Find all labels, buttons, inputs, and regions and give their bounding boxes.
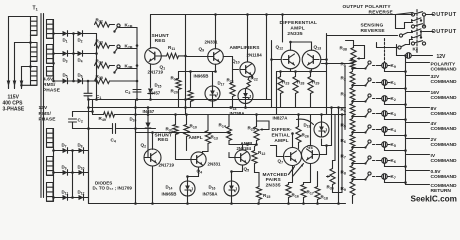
transistor Q7: [284, 148, 302, 166]
wire emitter row: [179, 71, 216, 73]
wire Q2 emitter: [152, 166, 154, 204]
junction sec row2: [52, 52, 55, 55]
wire R21 bot: [232, 97, 234, 108]
wire D16 bot: [231, 196, 233, 204]
wire ladder tap K~4~: [353, 132, 365, 134]
transistor Q4: [191, 152, 206, 167]
transformer secondary winding 3: [47, 67, 54, 76]
wire K8 right: [415, 55, 433, 57]
relay coil K~1~: [379, 80, 390, 86]
ladder seg R~5~: [352, 132, 354, 134]
label DIFFERENTIAL AMPL: [280, 20, 318, 37]
command line 0.5V: [406, 170, 430, 172]
label 16V cmd: [431, 90, 440, 96]
wire Q4 base: [176, 159, 191, 161]
label AMPL upper5: [241, 141, 255, 146]
label R11: [168, 45, 175, 51]
wire R~23~ top: [280, 72, 282, 77]
bus right 344: [344, 66, 346, 130]
label R~35~: [96, 74, 103, 80]
linkage K~4~: [373, 129, 379, 131]
power rail upper: [89, 99, 271, 101]
junction emitter row: [189, 70, 192, 73]
switch contact dots row5: [411, 35, 422, 39]
diode D~2~: [78, 31, 83, 37]
junction D24 top: [147, 106, 150, 109]
junction Q7 col: [291, 132, 294, 135]
junction R~23~: [279, 70, 282, 73]
junction switch bus3: [136, 80, 139, 83]
junction top rail Q9: [214, 13, 217, 16]
wire R~28~ top: [295, 72, 297, 77]
wire R18 top: [317, 172, 319, 187]
wire diff supply: [282, 15, 284, 43]
resistor R11: [167, 53, 179, 58]
wire K~9~ to bus: [385, 68, 406, 72]
command line 4V: [406, 122, 430, 124]
svg-text:SeekIC.com: SeekIC.com: [411, 195, 457, 204]
wire D24 top: [147, 108, 149, 123]
resistor R26: [296, 127, 301, 143]
wire Q7 emitter: [292, 166, 294, 183]
wire R~33~ out: [110, 45, 115, 47]
svg-text:12V: 12V: [437, 54, 447, 60]
junction tap K~1~: [351, 84, 354, 87]
junction row 3: [72, 80, 75, 83]
svg-text:IN965B: IN965B: [162, 192, 177, 197]
junction r31 top: [174, 113, 177, 116]
secondary lower bus: [53, 129, 55, 202]
diode D~9~: [63, 170, 68, 176]
wire R22 bottom: [246, 88, 247, 89]
label R~7~: [341, 154, 346, 160]
switch contact K~6~: [364, 156, 371, 165]
secondary link mid2: [47, 62, 54, 64]
wire D16 top: [231, 172, 233, 182]
ladder wire: [352, 59, 354, 60]
svg-text:COMMAND: COMMAND: [431, 111, 458, 117]
wire switch bus: [115, 28, 138, 82]
label OUTPUT 1: [432, 12, 457, 18]
wire R16 bot: [288, 198, 290, 204]
svg-text:COMMAND: COMMAND: [431, 95, 458, 101]
wire Q9 right: [223, 57, 232, 72]
svg-text:IN965B: IN965B: [194, 74, 209, 79]
junction K~4~ bus: [404, 134, 407, 137]
label D~9~: [62, 165, 67, 171]
wire K~1~ to bus: [385, 85, 406, 89]
label 1N457 upper: [149, 91, 161, 96]
wire R~29~ top: [310, 72, 312, 77]
label 8V cmd: [431, 106, 438, 112]
junction tap K~9~: [351, 67, 354, 70]
transistor Q8: [302, 146, 320, 164]
capacitor C2: [69, 119, 77, 122]
switch inner vert a: [423, 16, 425, 26]
linkage K~2~: [373, 98, 379, 100]
label D14: [166, 185, 173, 191]
wire Q9 collector: [215, 15, 217, 49]
wire Q12 emitter: [290, 69, 292, 72]
wire sense5b: [376, 43, 378, 48]
wire C1 stub: [87, 81, 89, 93]
label Q12: [276, 45, 284, 51]
wire R26 bot: [298, 143, 300, 149]
label R~34~: [96, 59, 103, 65]
label IV cmd2: [431, 158, 458, 164]
transformer T1 core: [41, 14, 44, 198]
junction 341: [341, 113, 344, 116]
junction C2: [91, 110, 94, 113]
label R~28~: [297, 80, 304, 86]
arrow matched pair leader 2: [293, 164, 304, 177]
diode D~12~: [79, 195, 84, 201]
wire R21 top: [232, 72, 234, 83]
junction D14: [186, 175, 189, 178]
wire D17 bot: [212, 101, 214, 108]
junction rail c: [87, 98, 90, 101]
zener diode D14: [180, 181, 195, 196]
3-phase input arrow 2: [13, 81, 17, 89]
svg-text:OUTPUT: OUTPUT: [432, 12, 457, 18]
wire R26 top: [298, 115, 300, 127]
wire Q10 emitter: [252, 76, 254, 79]
label MATCHED PAIRS: [263, 172, 288, 188]
junction lower row 2: [71, 171, 74, 174]
wire sense6: [406, 40, 413, 45]
junction 135a: [134, 106, 137, 109]
junction tap K~5~: [351, 146, 354, 149]
transformer primary winding A: [31, 17, 38, 36]
label 2N331 upper: [205, 40, 218, 45]
arc leader 1N827A: [297, 119, 314, 124]
resistor R31: [173, 125, 178, 135]
resistor R~1~: [350, 60, 355, 69]
junction bottom rail 187: [186, 202, 189, 205]
wire rail left vert: [88, 100, 90, 204]
ladder seg R~7~: [352, 163, 354, 165]
svg-text:COMMAND: COMMAND: [431, 142, 458, 148]
switch contact circles row6: [411, 41, 425, 45]
bus right 334 link: [333, 160, 336, 162]
junction center bus top: [184, 55, 187, 58]
wire C2 rail: [73, 128, 89, 130]
label R~23~: [282, 80, 289, 86]
wire R~23~ bot: [280, 94, 282, 108]
svg-text:2N1184: 2N1184: [247, 53, 263, 58]
transformer primary winding C: [31, 67, 38, 86]
label 4.6V RMS/PHASE: [43, 77, 61, 94]
resistor R~8~: [350, 166, 355, 179]
label D~8~: [78, 143, 83, 149]
transformer secondary winding 6: [47, 183, 54, 202]
wire D14 bot: [187, 196, 189, 204]
label D17: [218, 81, 225, 87]
wire R~32~ out: [110, 24, 115, 26]
junction sec row6: [52, 196, 55, 199]
label D~3~: [63, 58, 68, 64]
wire K~2~ to bus: [385, 101, 406, 105]
label Q9: [199, 47, 205, 53]
label R~6~: [341, 138, 346, 144]
label R~29~: [312, 80, 319, 86]
wire pot to ladder: [353, 63, 354, 64]
relay coil K~9~: [379, 63, 390, 69]
diode D~7~: [63, 148, 68, 154]
label SHUNT REG lower: [155, 133, 173, 144]
svg-text:IN758A: IN758A: [230, 111, 246, 116]
resistor R~32~: [95, 22, 110, 27]
wire D19 top: [321, 115, 323, 123]
wire R17 bot: [303, 198, 305, 204]
wire sense4: [408, 32, 413, 34]
junction bottom rail 288: [287, 202, 290, 205]
label 13V RMS/PHASE: [39, 105, 57, 123]
label 2N1184 lower: [237, 146, 252, 151]
wire R13 top: [207, 115, 209, 131]
transformer secondary winding 4: [47, 129, 54, 148]
resistor R~33~: [95, 43, 110, 48]
wire sense vert: [395, 15, 397, 29]
junction bottom rail 152: [151, 202, 154, 205]
svg-text:SENSINGREVERSE: SENSINGREVERSE: [361, 23, 386, 34]
label 1N965B upper: [194, 74, 209, 79]
capacitor C3: [133, 90, 141, 93]
label K~9~: [391, 63, 396, 69]
wire K~3~ to bus: [385, 116, 406, 120]
wire Q5 col: [243, 145, 248, 150]
wire Q7 base: [271, 146, 284, 157]
label D~5~: [63, 73, 68, 79]
wire R36 top: [332, 161, 334, 169]
capacitor C4: [113, 124, 116, 134]
transistor Q12: [281, 50, 300, 69]
junction switch bus2: [136, 64, 139, 67]
wire phase A: [9, 17, 31, 89]
wire Q8 emitter: [310, 164, 312, 183]
ladder seg R~8~: [352, 179, 354, 181]
label R~4~: [341, 107, 346, 113]
wire ladder top: [353, 41, 355, 48]
wire ladder tap K~5~: [353, 147, 365, 149]
label 16V cmd2: [431, 95, 458, 101]
label R~32~: [96, 18, 103, 24]
wire Q13 base: [321, 59, 327, 61]
bus right 334: [334, 115, 336, 161]
power rail lower: [93, 114, 104, 116]
label K~2B~: [125, 44, 133, 50]
label R20: [171, 89, 178, 95]
label Q8: [307, 144, 313, 150]
junction bottom rail 317: [316, 202, 319, 205]
wire R16 link: [289, 182, 293, 184]
junction rect out: [95, 52, 98, 55]
label 1N758A upper: [230, 111, 246, 116]
junction center bus: [184, 98, 187, 101]
diode D~1~: [63, 31, 68, 37]
label K8: [413, 47, 418, 53]
junction diff supply: [281, 13, 284, 16]
capacitor C1: [84, 93, 92, 96]
label 2N1184 upper: [247, 53, 263, 58]
wire r344 link: [344, 108, 346, 115]
label 2V cmd2: [431, 142, 458, 148]
transistor Q10: [240, 62, 255, 77]
label R13b: [211, 135, 218, 141]
junction K~2~ bus: [404, 103, 407, 106]
junction r25 bot: [255, 143, 258, 146]
wire primary link 2: [31, 61, 38, 66]
wire D15 out: [150, 95, 152, 100]
junction row 2: [72, 52, 75, 55]
switch contact K~3~: [364, 109, 371, 118]
wire Q5 col b: [248, 144, 257, 146]
junction R26 rail: [297, 113, 300, 116]
linkage K~9~: [373, 65, 379, 67]
junction C2b: [87, 127, 90, 130]
label 115V: [8, 95, 20, 101]
label 1N965B lower: [162, 192, 177, 197]
label 0.5V cmd: [431, 169, 442, 175]
wire switch k2 arm: [119, 48, 138, 50]
junction sec row4: [52, 149, 55, 152]
wire Q10 base: [233, 69, 239, 71]
label R~2~: [341, 76, 346, 82]
label R31: [166, 127, 173, 133]
wire ladder top2: [346, 40, 354, 42]
label AMPL lower1: [189, 135, 203, 141]
label 3-PHASE: [3, 107, 25, 113]
label R38: [340, 46, 347, 52]
resistor R~4~: [350, 104, 355, 116]
label 12V: [437, 54, 447, 60]
secondary bus tail: [47, 76, 54, 81]
capacitor C4 line: [89, 128, 112, 130]
wire R31 top: [175, 115, 177, 125]
switch contact circles row3: [411, 24, 425, 28]
ladder seg R~4~: [352, 116, 354, 118]
diode D~4~: [78, 51, 83, 57]
label IV cmd: [431, 153, 436, 159]
pot R25 wiper: [257, 121, 270, 131]
resistor R10: [184, 125, 189, 137]
resistor R12b: [252, 151, 257, 164]
diode D~10~: [79, 170, 84, 176]
switch K~1B~: [113, 24, 120, 33]
wire Q8 base: [320, 146, 327, 155]
junction K~7~ bus: [404, 181, 407, 184]
linkage K~5~: [373, 144, 379, 146]
resistor R~2~: [350, 72, 355, 85]
junction rail d: [95, 98, 98, 101]
bus right 331: [331, 108, 333, 146]
label 2N331 lower: [208, 162, 221, 167]
resistor R20: [188, 91, 193, 102]
label 1N758A lower: [203, 192, 219, 197]
label R17: [307, 190, 314, 196]
wire Q10 collector: [247, 15, 249, 62]
label R49: [99, 116, 106, 122]
switch linkage dashed: [416, 10, 418, 53]
resistor R~9~: [350, 182, 355, 196]
label R~1~: [341, 62, 346, 68]
zener diode D18: [238, 89, 253, 104]
label R16: [292, 193, 299, 199]
wire output2 line: [423, 31, 434, 33]
junction center bus2: [184, 106, 187, 109]
wire diff emitter rail: [277, 71, 327, 73]
junction D15: [149, 98, 152, 101]
wire R13 bot: [204, 144, 209, 152]
label D~12~: [78, 190, 85, 196]
label OUTPUT POLARITY REVERSE: [343, 4, 394, 15]
switch contact K~1~: [364, 78, 371, 87]
wire Q1 top: [150, 15, 152, 49]
wire rectifier lower row 2: [54, 172, 89, 174]
junction primary: [29, 41, 32, 44]
junction rail: [87, 106, 90, 109]
wire output1 line: [426, 14, 434, 16]
ladder seg R~6~: [352, 147, 354, 149]
label COMMAND cmd2: [431, 188, 452, 194]
label R~3~: [341, 92, 346, 98]
label POLARITY: [431, 62, 456, 68]
junction K~9~ bus: [404, 70, 407, 73]
resistor R19: [176, 79, 181, 90]
junction tap K~7~: [351, 178, 354, 181]
label D~10~: [78, 165, 85, 171]
junction sec row5: [52, 171, 55, 174]
wire D19 bot: [321, 139, 323, 146]
wire Q4 emitter: [188, 167, 199, 176]
label K~3~: [391, 111, 396, 117]
svg-text:2N1719: 2N1719: [159, 163, 175, 168]
command line 8V: [406, 107, 430, 109]
resistor R49: [104, 112, 115, 117]
relay coil K~5~: [379, 142, 390, 148]
power rail lower b: [115, 114, 346, 116]
wire R17 link: [304, 183, 311, 185]
wire Q4 col: [203, 152, 209, 154]
label COMMAND cmd: [431, 183, 458, 189]
wire rectifier row 1: [54, 33, 97, 35]
junction K~6~ bus: [404, 165, 407, 168]
diode D~5~: [63, 78, 68, 84]
label R22: [251, 76, 258, 82]
label K~6~: [391, 158, 396, 164]
label R25: [248, 126, 255, 132]
wire K8 left: [397, 55, 403, 57]
label 2N1719 lower: [159, 163, 175, 168]
junction bottom rail 338: [337, 202, 340, 205]
secondary link mid1: [47, 37, 54, 39]
arrow matched pair leader 1: [289, 167, 295, 175]
transformer secondary winding 2: [47, 45, 54, 64]
label OUTPUT 2: [432, 29, 457, 35]
svg-text:OUTPUT: OUTPUT: [432, 29, 457, 35]
wire R19 top: [178, 72, 180, 79]
label 0.5V cmd2: [431, 174, 458, 180]
junction rect out2: [95, 80, 98, 83]
junction primary 2: [29, 65, 32, 68]
label K~7~: [391, 174, 396, 180]
junction R~29~: [309, 70, 312, 73]
svg-text:AMPL: AMPL: [189, 135, 203, 141]
ladder seg R~1~: [352, 69, 354, 71]
command line 16V: [406, 91, 430, 93]
relay coil K~2~: [379, 96, 390, 102]
resistor R~5~: [350, 119, 355, 132]
